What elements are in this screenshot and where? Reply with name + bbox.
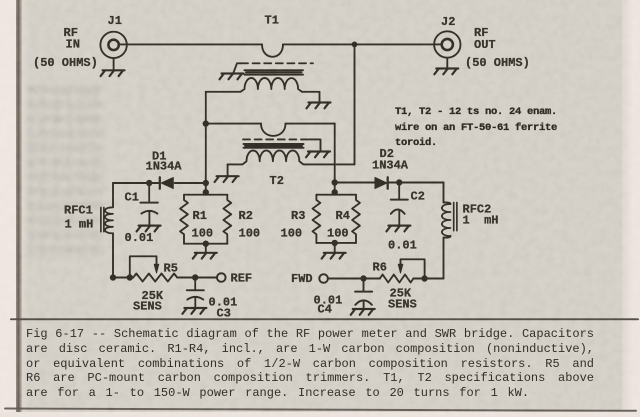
resistor R6 zigzag — [380, 275, 414, 283]
transformer T1 primary dip — [262, 44, 283, 56]
right page edge — [622, 0, 640, 417]
T2 core lines — [244, 144, 304, 148]
wire D2 row left — [335, 182, 375, 184]
node dot RFC1 bottom — [110, 274, 116, 280]
wire D1 to node — [175, 182, 206, 184]
ground J1 — [101, 70, 125, 76]
ground R1R2 — [193, 253, 217, 259]
R3R4 box top bar — [316, 194, 356, 196]
wire vertical from top rail down to T2 secondary — [354, 44, 356, 164]
T1 secondary winding — [206, 78, 320, 92]
ghost bleed-through text column (left) — [27, 86, 103, 260]
inductor RFC2 coil — [442, 204, 451, 236]
R3R4 box bottom bar — [316, 242, 356, 244]
connector J1 — [100, 32, 126, 58]
ground T1 shield — [220, 74, 244, 80]
ground C2 — [386, 226, 410, 232]
node dot C3 tap — [192, 274, 198, 280]
wire RFC1 branch upper — [112, 183, 114, 207]
capacitor C1 bottom plate — [141, 211, 157, 214]
RFC2 core lines — [454, 203, 457, 231]
ground stem R1R2 — [205, 244, 207, 252]
ground T2 secondary — [215, 176, 239, 182]
T1 shield ground elbow — [234, 63, 242, 72]
diode D2 triangle — [375, 177, 387, 188]
capacitor C1 stub — [148, 183, 150, 202]
terminal FWD — [319, 274, 328, 283]
T1 core lines — [245, 70, 304, 74]
node dot C1 tap — [146, 180, 152, 186]
capacitor C4 top plate — [355, 291, 372, 293]
bottom strip below rule — [0, 412, 640, 417]
resistor R2 (right zigzag of bridge box) — [223, 195, 231, 244]
wire R6 to RFC2 — [413, 278, 443, 280]
capacitor C4 stub — [363, 279, 365, 292]
wire RFC1 branch lower — [112, 233, 114, 277]
diode D1 triangle — [161, 177, 173, 188]
node dot R5 wiper tie — [127, 274, 133, 280]
wire D1 row — [113, 182, 159, 184]
capacitor C3 bottom plate — [187, 297, 203, 300]
capacitor C2 lower stub — [398, 210, 400, 225]
RFC1 core lines — [101, 208, 104, 232]
wire J1 to T1 dip — [119, 43, 262, 45]
ground C4 — [351, 309, 375, 315]
left shading — [22, 0, 30, 417]
node dot D2 row left — [332, 179, 338, 185]
note block about T1 T2 — [395, 105, 557, 152]
node dot R3R4 top — [332, 189, 338, 195]
caption block — [26, 327, 594, 400]
capacitor C2 bottom plate — [391, 210, 405, 214]
capacitor C3 lower stub — [194, 298, 196, 308]
node dot R3R4 bottom — [332, 240, 338, 246]
capacitor C1 lower stub — [148, 212, 150, 225]
ground R3R4 — [322, 253, 346, 259]
wire T2 primary right — [286, 123, 335, 125]
caption top rule — [11, 318, 638, 320]
wire T1 dip to J2 — [283, 43, 442, 45]
ground stem T1 secondary — [319, 92, 321, 102]
wire T2 primary left — [206, 123, 261, 125]
wire R5 to REF — [177, 277, 217, 279]
ground stem T2 secondary — [227, 164, 229, 175]
resistor R5 zigzag — [133, 274, 177, 282]
capacitor C3 stub — [194, 278, 196, 291]
wire FWD to R6 — [328, 278, 380, 280]
transformer T1 shield dashed line — [241, 62, 313, 64]
capacitor C4 bottom plate — [355, 300, 372, 304]
inductor RFC1 coil — [105, 207, 113, 233]
ground stem R3R4 — [334, 243, 336, 252]
transformer T2 shield dashed line — [243, 138, 302, 140]
capacitor C1 top plate — [140, 202, 157, 204]
ground T2 shield — [306, 152, 330, 158]
T2 shield solid elbow — [302, 139, 321, 150]
node dot R1R2 top — [203, 189, 209, 195]
resistor R4 (right zigzag of bridge box) — [352, 195, 360, 243]
ground stem J2 — [446, 58, 448, 68]
capacitor C4 lower stub — [363, 300, 365, 308]
wire node A vertical left — [205, 92, 207, 195]
resistor R3 (left zigzag of bridge box) — [313, 195, 321, 243]
diode D2 cathode bar — [387, 177, 389, 188]
node dot D1 junction — [203, 180, 209, 186]
terminal REF — [217, 273, 226, 282]
node dot C2 tap — [396, 179, 402, 185]
ground C1 — [137, 226, 161, 232]
node dot T2 top left — [203, 120, 209, 126]
page edge dark line — [16, 0, 22, 417]
trimmer R5 wiper box — [130, 256, 157, 277]
caption bottom rule — [5, 409, 636, 411]
wire D2 to RFC2 — [388, 182, 444, 184]
R1R2 box bottom bar — [184, 243, 227, 245]
wire R5 row left — [113, 277, 133, 279]
ground J2 — [434, 69, 458, 75]
T2 secondary winding — [228, 150, 355, 164]
wire RFC2 lower — [444, 236, 451, 279]
node dot R1R2 bottom — [203, 241, 209, 247]
capacitor C2 stub — [398, 183, 400, 200]
trimmer R6 wiper arrowhead — [398, 264, 403, 273]
resistor R1 (left zigzag of bridge box) — [180, 195, 188, 244]
ground stem J1 — [113, 58, 115, 69]
transformer T2 primary dip — [261, 124, 286, 136]
node dot R6 right — [421, 275, 427, 281]
trimmer R5 wiper arrowhead — [154, 264, 159, 273]
ground C3 — [182, 308, 206, 314]
trimmer R6 wiper box — [401, 259, 425, 278]
ground T1 secondary — [307, 103, 331, 109]
wire vertical T2 primary to bridge node — [334, 124, 336, 195]
node dot C4 tap — [360, 275, 366, 281]
diode D1 cathode bar — [159, 177, 161, 188]
node junction on top rail — [352, 42, 358, 48]
R1R2 box top bar — [184, 194, 227, 196]
connector J2 — [434, 31, 460, 57]
left page margin strip — [0, 0, 16, 417]
capacitor C3 top plate — [187, 289, 204, 291]
wire RFC2 upper — [444, 183, 451, 205]
capacitor C2 top plate — [391, 199, 408, 201]
